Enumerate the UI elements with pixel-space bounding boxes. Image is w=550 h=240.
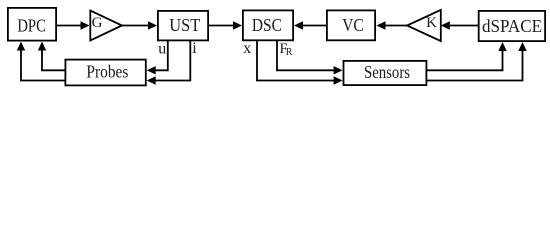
- svg-text:G: G: [92, 15, 103, 31]
- svg-text:DPC: DPC: [17, 15, 46, 35]
- svg-text:R: R: [286, 47, 293, 58]
- svg-text:Probes: Probes: [86, 62, 128, 82]
- svg-text:dSPACE: dSPACE: [482, 16, 542, 36]
- svg-text:x: x: [243, 40, 251, 57]
- svg-text:i: i: [192, 40, 197, 57]
- svg-text:UST: UST: [169, 15, 200, 35]
- svg-text:DSC: DSC: [252, 15, 282, 35]
- svg-text:VC: VC: [342, 15, 364, 35]
- svg-text:K: K: [426, 15, 437, 31]
- svg-text:u: u: [158, 40, 166, 57]
- svg-text:Sensors: Sensors: [364, 62, 410, 82]
